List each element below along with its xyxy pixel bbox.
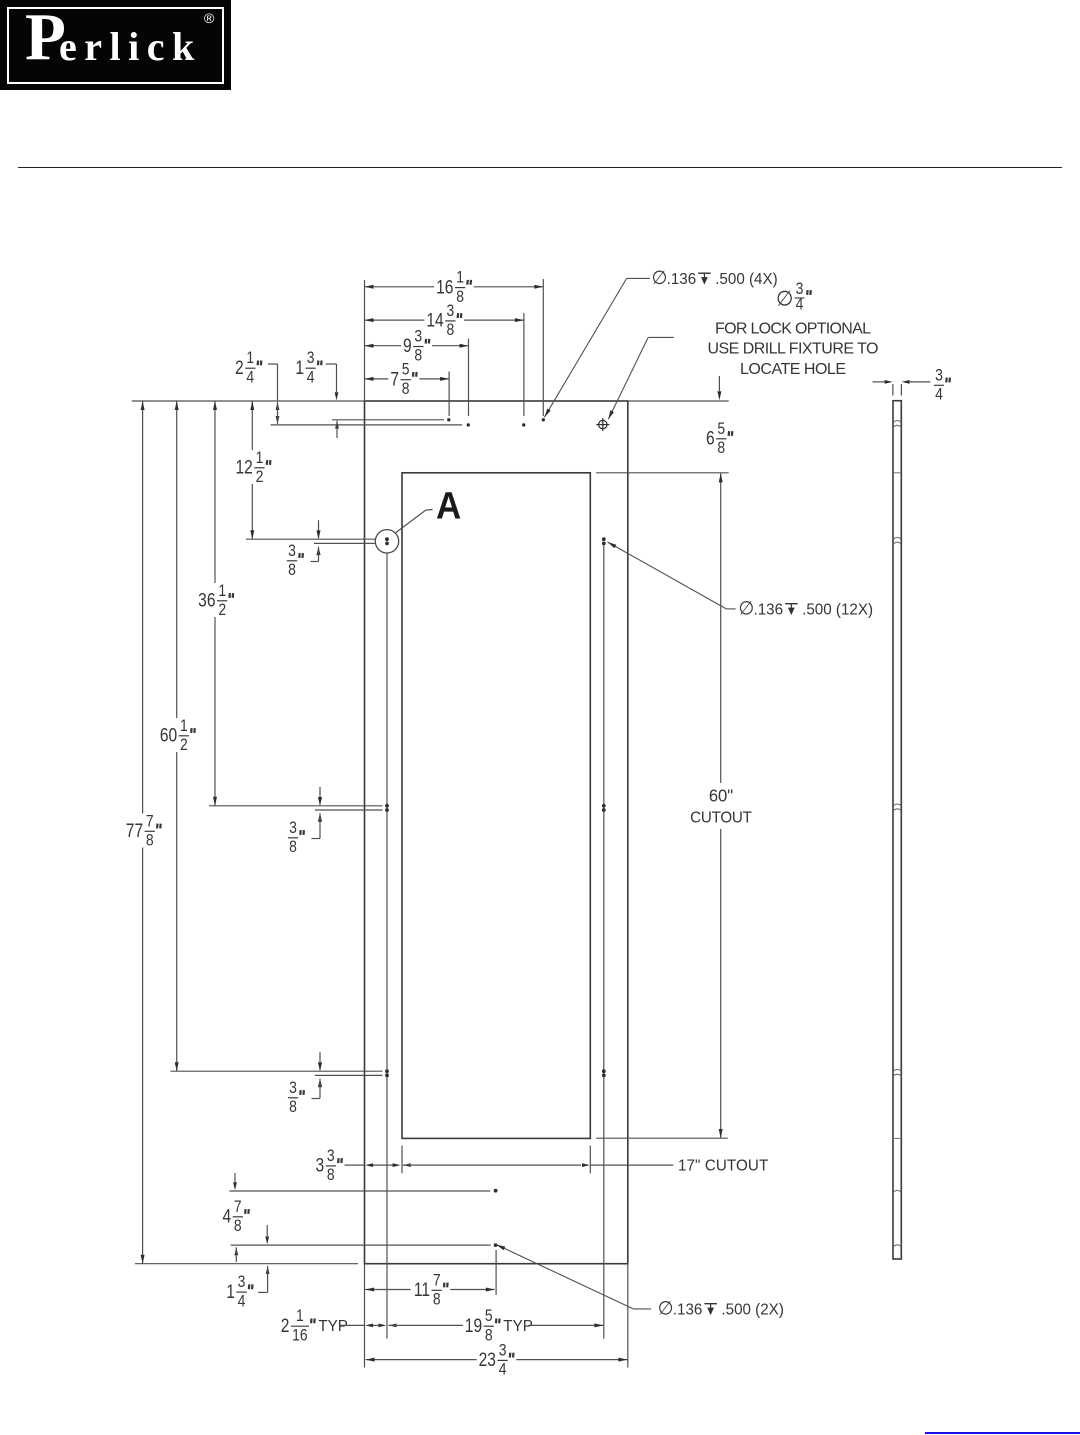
- svg-text:8: 8: [146, 831, 154, 850]
- svg-text:19: 19: [465, 1314, 482, 1336]
- svg-text:TYP: TYP: [318, 1318, 348, 1335]
- svg-text:USE DRILL FIXTURE TO: USE DRILL FIXTURE TO: [708, 341, 879, 358]
- svg-text:2: 2: [256, 468, 264, 487]
- svg-text:16: 16: [292, 1326, 307, 1345]
- svg-text:FOR LOCK OPTIONAL: FOR LOCK OPTIONAL: [715, 321, 871, 338]
- svg-text:3: 3: [289, 819, 297, 838]
- svg-text:3: 3: [414, 327, 422, 346]
- svg-text:8: 8: [717, 439, 725, 458]
- svg-text:.500 (2X): .500 (2X): [721, 1301, 783, 1318]
- svg-text:A: A: [436, 484, 461, 527]
- svg-text:8: 8: [433, 1290, 441, 1309]
- svg-text:1: 1: [456, 268, 464, 287]
- svg-text:2: 2: [281, 1314, 290, 1336]
- svg-text:8: 8: [234, 1217, 242, 1236]
- svg-text:8: 8: [289, 1098, 297, 1117]
- svg-text:16: 16: [436, 276, 453, 298]
- svg-text:2: 2: [235, 356, 244, 378]
- svg-text:3: 3: [935, 366, 943, 385]
- svg-text:3: 3: [499, 1341, 507, 1360]
- svg-text:3: 3: [288, 542, 296, 561]
- svg-text:8: 8: [402, 380, 410, 399]
- svg-text:7: 7: [433, 1271, 441, 1290]
- svg-text:∅: ∅: [652, 266, 668, 288]
- svg-text:6: 6: [706, 427, 715, 449]
- svg-text:.136: .136: [673, 1301, 703, 1318]
- svg-text:2: 2: [180, 736, 188, 755]
- svg-text:4: 4: [307, 368, 315, 387]
- svg-text:60: 60: [160, 724, 177, 746]
- svg-text:.136: .136: [667, 271, 697, 288]
- svg-text:23: 23: [479, 1349, 496, 1371]
- svg-text:LOCATE HOLE: LOCATE HOLE: [740, 361, 846, 378]
- svg-text:3: 3: [316, 1154, 325, 1176]
- svg-text:1: 1: [296, 1307, 304, 1326]
- svg-text:14: 14: [426, 309, 444, 331]
- svg-text:4: 4: [499, 1360, 507, 1379]
- svg-text:1: 1: [218, 582, 226, 601]
- svg-text:5: 5: [402, 360, 410, 379]
- svg-text:8: 8: [447, 321, 455, 340]
- svg-text:5: 5: [717, 420, 725, 439]
- svg-text:60": 60": [709, 786, 733, 805]
- svg-text:∅: ∅: [739, 597, 755, 619]
- svg-text:77: 77: [126, 820, 143, 842]
- svg-text:3: 3: [238, 1273, 246, 1292]
- svg-text:∅: ∅: [658, 1297, 674, 1319]
- svg-text:7: 7: [234, 1198, 242, 1217]
- svg-text:1: 1: [246, 349, 254, 368]
- svg-text:3: 3: [447, 302, 455, 321]
- svg-text:4: 4: [935, 385, 943, 404]
- svg-text:CUTOUT: CUTOUT: [690, 809, 752, 826]
- svg-text:1: 1: [256, 449, 264, 468]
- svg-text:1: 1: [180, 717, 188, 736]
- svg-text:4: 4: [246, 368, 254, 387]
- svg-text:3: 3: [307, 349, 315, 368]
- svg-text:9: 9: [403, 335, 412, 357]
- svg-text:1: 1: [226, 1280, 235, 1302]
- svg-text:4: 4: [238, 1292, 246, 1311]
- svg-text:8: 8: [414, 346, 422, 365]
- svg-text:.500 (4X): .500 (4X): [715, 271, 777, 288]
- svg-text:4: 4: [223, 1205, 232, 1227]
- svg-text:.500 (12X): .500 (12X): [802, 601, 873, 618]
- svg-text:8: 8: [456, 288, 464, 307]
- svg-text:17" CUTOUT: 17" CUTOUT: [678, 1157, 769, 1174]
- svg-text:7: 7: [390, 368, 399, 390]
- svg-text:11: 11: [414, 1279, 430, 1301]
- svg-text:4: 4: [796, 295, 804, 314]
- svg-text:3: 3: [327, 1147, 335, 1166]
- svg-text:5: 5: [485, 1307, 493, 1326]
- svg-text:8: 8: [327, 1166, 335, 1185]
- svg-text:.136: .136: [754, 601, 784, 618]
- svg-text:8: 8: [288, 561, 296, 580]
- svg-text:∅: ∅: [776, 287, 793, 311]
- svg-text:1: 1: [295, 356, 304, 378]
- svg-text:3: 3: [289, 1079, 297, 1098]
- svg-text:8: 8: [289, 838, 297, 857]
- svg-text:8: 8: [485, 1326, 493, 1345]
- svg-text:2: 2: [218, 601, 226, 620]
- svg-text:TYP: TYP: [503, 1318, 533, 1335]
- svg-text:36: 36: [198, 589, 215, 611]
- svg-text:12: 12: [235, 456, 252, 478]
- svg-text:7: 7: [146, 812, 154, 831]
